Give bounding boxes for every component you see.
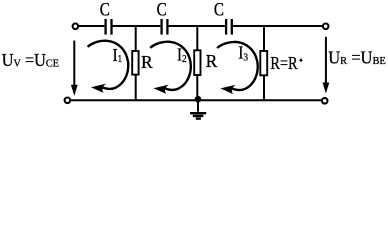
svg-text:R=R: R=R [270,55,298,74]
svg-text:R: R [206,51,218,71]
svg-text:C: C [214,0,224,20]
svg-text:C: C [157,0,167,20]
svg-text:R: R [141,52,153,72]
svg-text:C: C [100,0,110,20]
